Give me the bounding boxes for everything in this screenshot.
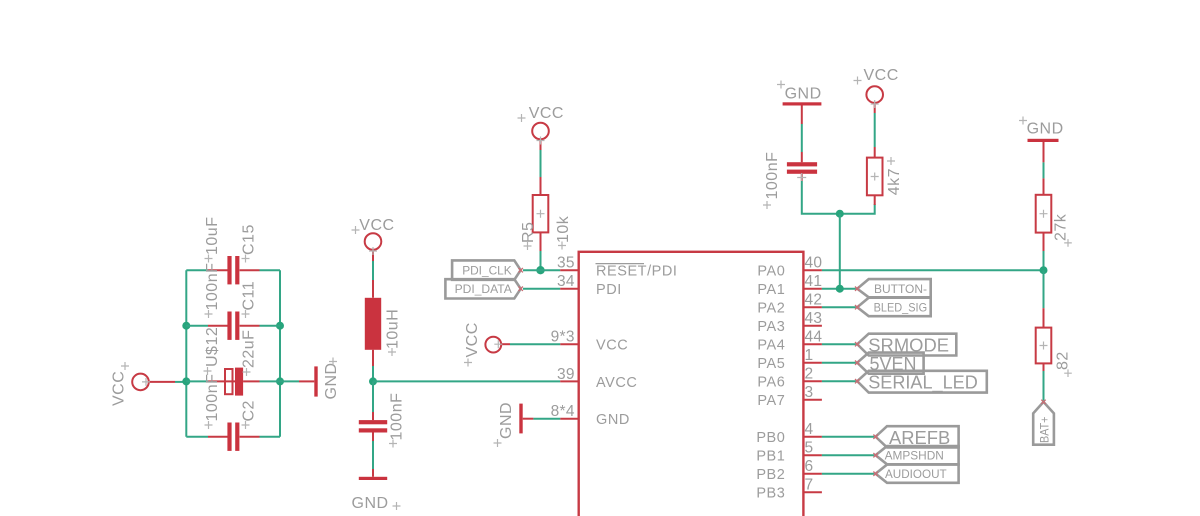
label flag BLED_SIG — [855, 298, 931, 317]
wire VCC to R5 — [540, 150, 542, 177]
wire junction down to pin41 — [839, 214, 841, 289]
svg-text:22uF: 22uF — [240, 330, 257, 368]
svg-text:100nF: 100nF — [204, 263, 221, 311]
wire GND pin — [533, 418, 560, 420]
svg-text:R5: R5 — [520, 222, 537, 243]
pin 8*4 GND — [560, 418, 579, 420]
wire cap to GND — [372, 441, 374, 469]
svg-text:10uF: 10uF — [204, 217, 221, 255]
svg-text:GND: GND — [498, 402, 515, 439]
label flag BUTTON- — [855, 279, 931, 297]
pin 1 PA5 — [803, 362, 822, 364]
svg-text:VCC: VCC — [464, 322, 481, 357]
pin 34 PDI — [560, 288, 579, 290]
svg-text:3: 3 — [805, 384, 814, 401]
ground GND (top right) — [777, 81, 822, 125]
label flag AMPSHDN — [873, 446, 958, 464]
label flag PDI_CLK — [452, 260, 523, 279]
capacitor C11 100nF — [186, 263, 280, 340]
svg-text:1: 1 — [805, 347, 814, 364]
svg-text:PA4: PA4 — [757, 338, 785, 354]
pin 6 PB2 — [803, 473, 822, 475]
svg-text:PA3: PA3 — [757, 319, 785, 335]
pin 43 PA3 — [803, 325, 822, 327]
svg-text:U$12: U$12 — [204, 327, 221, 367]
svg-text:GND: GND — [323, 362, 340, 399]
junction dot pin35 — [536, 266, 544, 274]
svg-text:100nF: 100nF — [204, 374, 221, 422]
svg-text:5: 5 — [805, 440, 814, 457]
svg-text:SERIAL_LED: SERIAL_LED — [868, 371, 978, 393]
label flag SRMODE — [855, 334, 956, 356]
wire VCC pin — [510, 343, 560, 345]
svg-text:PB2: PB2 — [756, 467, 785, 483]
capacitor 100nF (middle) — [359, 393, 406, 448]
wire pin 40 to right column — [822, 269, 1044, 271]
ground GND (middle bottom) — [352, 469, 401, 512]
pin 3 PA7 — [803, 399, 822, 401]
junction dot (far right) — [1040, 266, 1048, 274]
svg-text:GND: GND — [785, 85, 822, 102]
junction dot (middle) — [369, 377, 377, 385]
polarized capacitor U$12 22uF — [186, 327, 280, 396]
label flag PDI_DATA — [445, 279, 523, 298]
supply VCC (top right) — [854, 67, 899, 113]
pin 4 PB0 — [803, 436, 822, 438]
ground GND (far right) — [1019, 117, 1064, 163]
svg-text:AVCC: AVCC — [596, 375, 637, 391]
svg-text:41: 41 — [805, 273, 823, 290]
svg-text:PB0: PB0 — [756, 430, 785, 446]
svg-text:35: 35 — [557, 255, 575, 272]
svg-text:7: 7 — [805, 477, 814, 494]
svg-text:BAT+: BAT+ — [1038, 417, 1052, 444]
wire pin 4 — [822, 436, 876, 438]
svg-text:10k: 10k — [555, 215, 572, 243]
svg-text:GND: GND — [596, 412, 630, 428]
wire 27k to junction — [1043, 251, 1045, 270]
label flag 5VEN — [855, 353, 924, 374]
inductor 10uH — [365, 280, 402, 366]
svg-text:PB3: PB3 — [756, 486, 785, 502]
pin 7 PB3 — [803, 491, 822, 493]
ground GND (IC pin) — [494, 402, 534, 447]
svg-text:PA1: PA1 — [757, 282, 785, 298]
label flag SERIAL_LED — [855, 371, 987, 394]
svg-text:C11: C11 — [240, 281, 257, 311]
svg-text:40: 40 — [805, 255, 823, 272]
wire pin 34 — [523, 288, 560, 290]
node left rail — [185, 270, 187, 437]
wire VCC to cap ladder — [175, 381, 186, 383]
wire junction to AVCC pin — [373, 380, 560, 382]
wire pin 6 — [822, 473, 876, 475]
svg-text:82: 82 — [1055, 351, 1072, 370]
supply VCC (IC pin) — [464, 322, 510, 366]
svg-text:C15: C15 — [240, 224, 257, 255]
resistor 27k — [1036, 178, 1072, 251]
wire GND to 27k — [1043, 162, 1045, 178]
wire junction down — [372, 381, 374, 412]
svg-text:PDI_DATA: PDI_DATA — [455, 282, 512, 296]
svg-text:PA7: PA7 — [757, 393, 785, 409]
svg-text:BUTTON-: BUTTON- — [874, 282, 927, 296]
junction dot pin 41 — [836, 285, 844, 293]
svg-text:VCC: VCC — [111, 371, 128, 406]
pin 42 PA2 — [803, 306, 822, 308]
ground GND (left block) — [280, 358, 340, 400]
wire GND to 100nF — [801, 124, 803, 152]
svg-text:4: 4 — [805, 421, 814, 438]
wire R5 to junction — [540, 251, 542, 270]
svg-text:34: 34 — [557, 273, 575, 290]
svg-text:27k: 27k — [1052, 213, 1069, 241]
svg-text:100nF: 100nF — [764, 152, 781, 200]
svg-text:PA6: PA6 — [757, 375, 785, 391]
pin 40 PA0 — [803, 269, 822, 271]
pin 39 AVCC — [560, 380, 579, 382]
label flag AREFB — [873, 426, 958, 448]
svg-text:42: 42 — [805, 292, 823, 309]
wire 100nF to rail — [802, 181, 875, 214]
svg-text:10uH: 10uH — [385, 309, 402, 349]
svg-text:PDI_CLK: PDI_CLK — [462, 264, 512, 278]
capacitor C15 10uF — [186, 217, 280, 285]
svg-text:PA2: PA2 — [757, 301, 785, 317]
capacitor 100nF (top right) — [763, 152, 817, 209]
supply VCC (middle column) — [352, 217, 395, 261]
svg-text:VCC: VCC — [529, 105, 564, 122]
pin 2 PA6 — [803, 380, 822, 382]
wire 82 to BAT+ — [1043, 371, 1045, 402]
wire VCC to inductor — [372, 261, 374, 280]
svg-text:4k7: 4k7 — [886, 168, 903, 195]
pin 35 RESET/PDI — [560, 269, 579, 271]
junction dot (top right) — [836, 210, 844, 218]
svg-text:PA0: PA0 — [757, 264, 785, 280]
resistor R5 10k — [520, 177, 572, 251]
svg-text:AUDIOOUT: AUDIOOUT — [885, 467, 947, 481]
op-amp U1 body (microcontroller IC) — [579, 252, 804, 516]
resistor 82 — [1036, 308, 1072, 377]
pin 9*3 VCC — [560, 343, 579, 345]
label flag BAT+ — [1033, 400, 1054, 445]
svg-text:PB1: PB1 — [756, 449, 785, 465]
junction dots left rail — [182, 322, 190, 330]
svg-text:VCC: VCC — [596, 338, 628, 354]
svg-text:BLED_SIG: BLED_SIG — [874, 301, 928, 315]
svg-text:AMPSHDN: AMPSHDN — [885, 449, 944, 463]
wire junction to 82 — [1043, 270, 1045, 308]
wire pin 41 — [822, 288, 857, 290]
junction dots right rail — [276, 322, 284, 330]
svg-text:43: 43 — [805, 310, 823, 327]
svg-text:PA5: PA5 — [757, 356, 785, 372]
svg-text:9*3: 9*3 — [551, 329, 575, 346]
node right rail — [279, 270, 281, 437]
svg-text:100nF: 100nF — [389, 393, 406, 441]
pin 41 PA1 — [803, 288, 822, 290]
svg-text:6: 6 — [805, 458, 814, 475]
pin 44 PA4 — [803, 343, 822, 345]
svg-text:C2: C2 — [240, 400, 257, 421]
capacitor C2 100nF — [186, 374, 280, 451]
svg-text:PDI: PDI — [596, 282, 622, 298]
supply VCC (left) — [111, 362, 176, 406]
svg-text:44: 44 — [805, 329, 823, 346]
wire junction to pin 35 — [523, 269, 560, 271]
wire VCC to 4k7 — [874, 113, 876, 147]
svg-text:AREFB: AREFB — [889, 427, 950, 448]
wire pin 42 — [822, 306, 857, 308]
resistor 4k7 — [867, 147, 903, 205]
supply VCC (R5 column) — [518, 105, 564, 150]
svg-text:GND: GND — [352, 495, 389, 512]
svg-text:RESET/PDI: RESET/PDI — [596, 264, 678, 280]
pin 5 PB1 — [803, 454, 822, 456]
svg-text:2: 2 — [805, 366, 814, 383]
svg-text:39: 39 — [557, 366, 575, 383]
label flag AUDIOOUT — [873, 465, 958, 483]
svg-text:VCC: VCC — [359, 217, 394, 234]
wire inductor to junction — [372, 366, 374, 381]
svg-text:GND: GND — [1027, 120, 1064, 137]
wire pin 5 — [822, 454, 876, 456]
wire pin 1 — [822, 362, 857, 364]
wire pin 2 — [822, 380, 857, 382]
svg-text:8*4: 8*4 — [551, 403, 575, 420]
wire pin 44 — [822, 343, 857, 345]
svg-text:VCC: VCC — [864, 67, 899, 84]
